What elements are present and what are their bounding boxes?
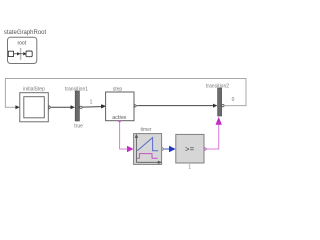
timer icon blue ramp [137,138,158,151]
root icon right place [26,51,32,57]
wire feedback loop transition2 to initialStep [5,79,246,110]
svg-text:1: 1 [90,100,93,106]
transition T1 bar [75,91,79,121]
transition2 output port circle [222,104,224,106]
svg-text:stateGraphRoot: stateGraphRoot [4,30,47,36]
block root (state graph root chart) [8,37,37,63]
root icon wire with arrows [14,53,26,55]
transition1 output port circle [80,106,82,108]
block relational operator >= [176,134,204,163]
wire initialStep to transition1 [52,105,76,109]
timer output port [162,147,164,150]
block timer [134,134,162,165]
wire transition1 to step [82,105,105,109]
svg-text:step: step [113,86,123,92]
step input arrowhead [102,104,106,108]
svg-text:timer: timer [140,127,151,133]
wire relational operator to transition2 (magenta) [207,117,222,149]
svg-text:initialStep: initialStep [23,86,45,92]
svg-text:1: 1 [188,165,191,171]
block step (state) [106,92,134,121]
svg-text:>=: >= [185,145,195,154]
svg-text:true: true [74,124,83,130]
timer icon axes [135,135,161,164]
wire step active to timer (magenta) [120,123,134,153]
svg-text:active: active [112,115,126,121]
step active bottom port (magenta) [118,121,122,123]
timer icon magenta pulse [137,154,158,159]
step output port [134,104,136,107]
relational operator output port [204,147,206,150]
block initialStep (double border state) [20,93,49,122]
transition T2 bar [218,88,222,116]
wire step to transition2 [137,104,217,108]
root icon left place [8,51,13,56]
initialStep output port [49,106,51,109]
root icon transition tick [20,48,21,60]
wire timer to relational operator (blue) [165,146,176,152]
svg-text:root: root [17,40,26,46]
svg-text:0: 0 [232,97,235,103]
